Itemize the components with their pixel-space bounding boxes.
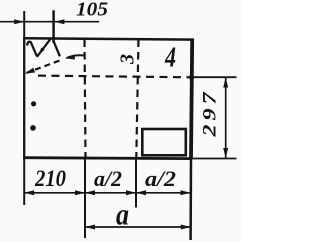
- bottom extension line at 210 mark: [84, 159, 86, 239]
- row1 arrowhead left at 24: [24, 190, 34, 195]
- filing hole dot 1: [31, 101, 36, 106]
- fold line 1 (vertical dashed): [85, 40, 86, 158]
- dim 297: arrowhead up: [223, 78, 228, 88]
- fold line 2 (vertical dashed): [136, 40, 138, 158]
- dim 297: junction dot: [189, 75, 194, 80]
- corner fold dashed diagonal: [27, 61, 60, 73]
- dim 105: arrowhead pointing left: [54, 19, 64, 24]
- corner fold mark: falling stroke: [53, 40, 60, 56]
- svg-text:210: 210: [34, 166, 66, 192]
- fold direction arrowhead: [65, 54, 75, 59]
- dim 297: top extension line: [191, 76, 237, 78]
- corner fold arrowhead at corner: [25, 68, 35, 74]
- corner fold mark arrowhead on rising stroke: [39, 48, 45, 55]
- svg-text:a/2: a/2: [94, 166, 122, 191]
- row1 arrowhead left at 85: [85, 190, 95, 195]
- dim 105: extension line left (above sheet): [23, 11, 25, 39]
- svg-text:a: a: [116, 197, 129, 232]
- svg-text:105: 105: [76, 0, 108, 21]
- dim 297: arrowhead down: [223, 148, 228, 158]
- svg-text:297: 297: [201, 89, 221, 138]
- fold direction arrow (curved, pointing left): [67, 55, 86, 58]
- row1 arrowhead left at 136: [136, 190, 146, 195]
- bottom extension line at left edge: [23, 159, 25, 206]
- sheet outline: top edge: [23, 38, 193, 39]
- corner fold mark: curved stroke: [27, 42, 37, 57]
- svg-text:4: 4: [164, 42, 176, 74]
- dim 297: vertical dimension line: [225, 78, 227, 159]
- dim a arrowhead right: [181, 225, 191, 230]
- sheet outline: left edge: [23, 38, 25, 159]
- fold line horizontal (dashed): [38, 76, 191, 78]
- bottom extension line at right edge: [189, 159, 192, 241]
- corner fold mark: rising stroke: [37, 39, 51, 57]
- bottom dimension line row 1: [24, 192, 190, 194]
- dim 105: extension line right: [52, 10, 55, 43]
- dimension line a: [85, 226, 191, 228]
- row1 arrowhead right at 190.5: [181, 190, 191, 195]
- svg-text:3: 3: [117, 54, 139, 65]
- sheet outline: right edge: [191, 39, 192, 159]
- dim 105: arrowhead pointing right: [14, 19, 24, 24]
- dim a arrowhead left: [85, 225, 95, 230]
- dim 297: bottom extension line: [192, 158, 237, 160]
- filing hole dot 2: [30, 125, 36, 131]
- title block small rectangle: [142, 129, 186, 155]
- bottom extension line at a/2 mark: [135, 159, 137, 208]
- row1 arrowhead right at 85: [75, 190, 85, 195]
- sheet outline: bottom edge: [23, 156, 192, 160]
- dim 105: dimension line: [0, 21, 99, 23]
- svg-text:a/2: a/2: [145, 166, 176, 191]
- row1 arrowhead right at 136: [126, 190, 136, 195]
